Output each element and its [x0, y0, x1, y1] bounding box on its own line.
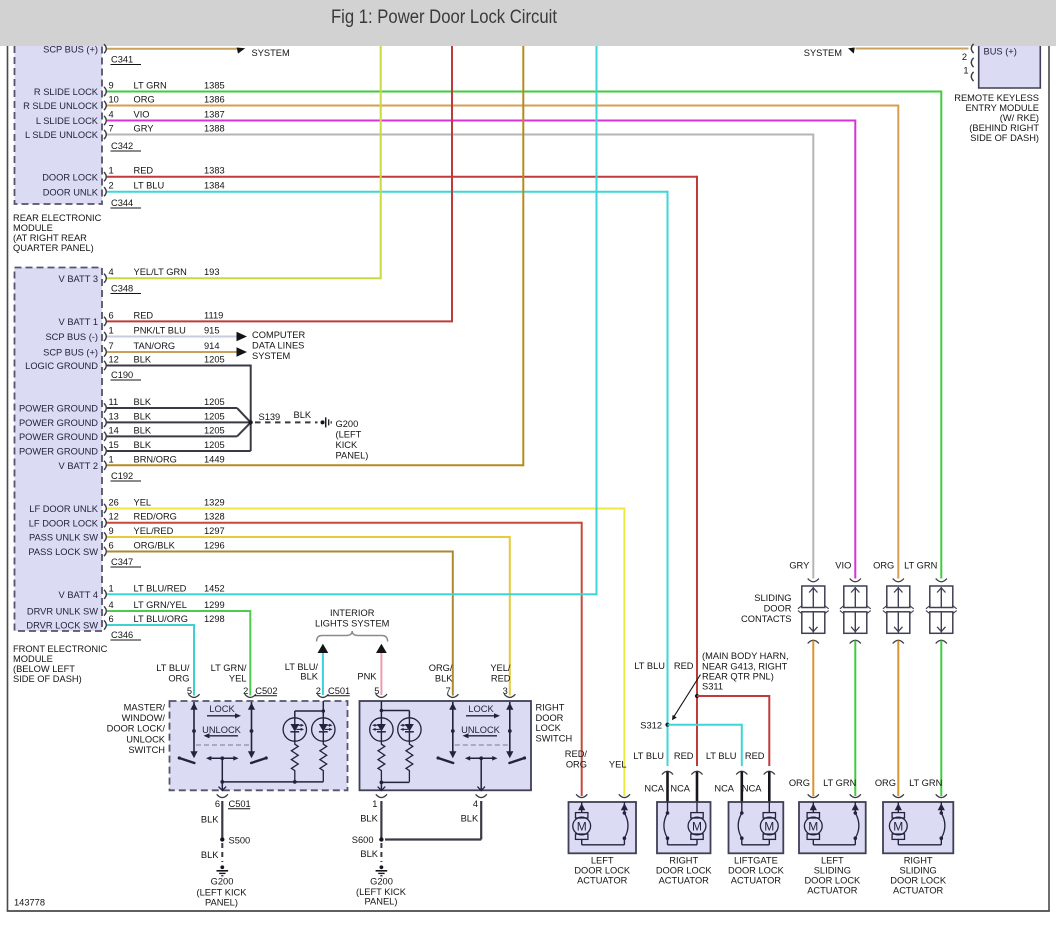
- svg-text:RIGHT: RIGHT: [669, 856, 698, 866]
- right switch lock/unlock arrows: [461, 704, 501, 739]
- sliding door contact at ORG: [883, 579, 914, 644]
- svg-text:SWITCH: SWITCH: [536, 733, 573, 743]
- svg-text:SYSTEM: SYSTEM: [804, 48, 842, 58]
- off-page arrow SYSTEM (right): [804, 48, 855, 58]
- svg-text:DRVR LOCK SW: DRVR LOCK SW: [26, 621, 98, 631]
- NCA wire at x=769.3: [764, 771, 775, 803]
- svg-text:UNLOCK: UNLOCK: [461, 725, 501, 735]
- svg-text:REAR ELECTRONIC: REAR ELECTRONIC: [13, 213, 102, 223]
- wire BLK dashed to ground (left): [201, 843, 222, 862]
- svg-text:Fig 1: Power Door Lock Circuit: Fig 1: Power Door Lock Circuit: [331, 7, 558, 28]
- svg-text:(BEHIND RIGHT: (BEHIND RIGHT: [969, 123, 1039, 133]
- svg-text:1119: 1119: [204, 310, 223, 320]
- svg-text:C348: C348: [111, 284, 133, 294]
- svg-text:5: 5: [187, 686, 192, 696]
- wire label YEL: [609, 760, 627, 770]
- svg-text:ENTRY MODULE: ENTRY MODULE: [965, 103, 1039, 113]
- svg-text:193: 193: [204, 267, 220, 277]
- svg-text:BLK: BLK: [201, 815, 219, 825]
- svg-text:C342: C342: [111, 141, 133, 151]
- svg-text:V BATT 3: V BATT 3: [59, 274, 98, 284]
- wire label PNK: [357, 672, 377, 682]
- svg-text:LT BLU/ORG: LT BLU/ORG: [134, 614, 188, 624]
- svg-text:ORG/: ORG/: [429, 663, 453, 673]
- svg-text:DOOR LOCK: DOOR LOCK: [890, 876, 947, 886]
- wire label YEL/ RED: [490, 663, 511, 684]
- wire label ORG/ BLK: [429, 663, 454, 684]
- svg-text:1: 1: [109, 326, 114, 336]
- svg-text:LF DOOR UNLK: LF DOOR UNLK: [29, 504, 99, 514]
- arrow to interior lights (LT BLU/BLK): [318, 644, 329, 653]
- svg-text:1328: 1328: [204, 512, 225, 522]
- svg-text:SLIDING: SLIDING: [900, 866, 937, 876]
- svg-text:(LEFT KICK: (LEFT KICK: [356, 887, 407, 897]
- svg-text:12: 12: [109, 355, 119, 365]
- svg-text:YEL: YEL: [134, 498, 152, 508]
- right door lock actuator label: [656, 856, 713, 886]
- sliding door contact at VIO: [840, 579, 871, 644]
- RKE pin connectors: [971, 44, 973, 81]
- svg-text:YEL/LT GRN: YEL/LT GRN: [134, 267, 187, 277]
- svg-text:4: 4: [109, 267, 114, 277]
- FEM pin connectors: [104, 274, 106, 630]
- liftgate door lock actuator: [729, 802, 784, 853]
- svg-text:WINDOW/: WINDOW/: [122, 713, 166, 723]
- svg-text:ORG/BLK: ORG/BLK: [134, 541, 176, 551]
- wire label LT GRN/ YEL: [211, 663, 247, 684]
- right switch bottom bus: [378, 781, 410, 791]
- svg-text:SYSTEM: SYSTEM: [252, 351, 290, 361]
- REM caption: [13, 213, 102, 253]
- svg-text:C341: C341: [111, 55, 133, 65]
- master switch LED 1: [283, 718, 306, 741]
- splice S311: [695, 694, 699, 698]
- svg-text:PNK: PNK: [357, 672, 377, 682]
- svg-text:6: 6: [109, 614, 114, 624]
- connector C348: [111, 284, 142, 294]
- svg-text:POWER GROUND: POWER GROUND: [19, 404, 98, 414]
- svg-text:LT BLU: LT BLU: [706, 751, 737, 761]
- svg-text:ORG: ORG: [875, 778, 896, 788]
- svg-text:DATA LINES: DATA LINES: [252, 341, 304, 351]
- svg-text:NCA: NCA: [714, 784, 734, 794]
- svg-text:UNLOCK: UNLOCK: [126, 734, 166, 744]
- master switch LED 2: [312, 718, 335, 741]
- ground G200 (S600): [356, 865, 407, 906]
- svg-text:L SLDE UNLOCK: L SLDE UNLOCK: [25, 130, 99, 140]
- wire ORG below contact: [812, 641, 814, 797]
- svg-text:LOCK: LOCK: [209, 704, 235, 714]
- wire LT GRN 1385: [107, 91, 941, 579]
- svg-text:RED: RED: [134, 310, 154, 320]
- svg-text:RIGHT: RIGHT: [904, 856, 933, 866]
- svg-text:ACTUATOR: ACTUATOR: [577, 876, 628, 886]
- connector C501 label (bottom): [228, 799, 251, 809]
- rear electronic module box: [15, 46, 103, 204]
- svg-text:(BELOW LEFT: (BELOW LEFT: [13, 664, 75, 674]
- svg-text:RED/ORG: RED/ORG: [134, 512, 177, 522]
- master switch mechanical link (dashed): [196, 744, 250, 746]
- svg-text:6: 6: [215, 799, 220, 809]
- svg-text:SCP BUS (+): SCP BUS (+): [43, 44, 98, 54]
- wire ORG/BLK 1296: [107, 551, 453, 696]
- right switch: lock switch: [437, 702, 457, 763]
- svg-text:10: 10: [109, 95, 119, 105]
- svg-text:R SLDE UNLOCK: R SLDE UNLOCK: [23, 101, 99, 111]
- svg-text:G200: G200: [336, 419, 359, 429]
- connector C192: [111, 471, 142, 481]
- sliding door contact at GRY: [798, 579, 829, 644]
- svg-text:(LEFT KICK: (LEFT KICK: [197, 888, 248, 898]
- master switch bottom pin 6 C501: [215, 794, 228, 809]
- svg-text:R SLIDE LOCK: R SLIDE LOCK: [34, 87, 99, 97]
- svg-text:LT BLU/: LT BLU/: [156, 663, 190, 673]
- svg-text:SLIDING: SLIDING: [814, 866, 851, 876]
- svg-text:TAN/ORG: TAN/ORG: [134, 341, 176, 351]
- svg-text:1: 1: [372, 799, 377, 809]
- connector C190: [111, 370, 142, 380]
- svg-text:INTERIOR: INTERIOR: [330, 608, 375, 618]
- svg-text:FRONT ELECTRONIC: FRONT ELECTRONIC: [13, 644, 108, 654]
- svg-text:REAR QTR PNL): REAR QTR PNL): [702, 672, 774, 682]
- svg-text:YEL: YEL: [229, 674, 247, 684]
- figure number 143778: [14, 898, 45, 908]
- svg-text:LOGIC GROUND: LOGIC GROUND: [25, 361, 98, 371]
- master switch LED feed: [295, 701, 325, 718]
- svg-text:SYSTEM: SYSTEM: [252, 48, 290, 58]
- svg-text:LIFTGATE: LIFTGATE: [734, 856, 778, 866]
- master switch bottom bus: [222, 780, 323, 784]
- wire LT GRN/YEL 1299: [107, 610, 250, 696]
- svg-text:ORG: ORG: [168, 674, 189, 684]
- svg-text:1: 1: [109, 583, 114, 593]
- data-lines arrow 1: [237, 332, 248, 341]
- svg-text:VIO: VIO: [134, 110, 150, 120]
- svg-text:C346: C346: [111, 630, 133, 640]
- svg-text:ORG: ORG: [566, 760, 587, 770]
- svg-text:NCA: NCA: [670, 784, 690, 794]
- svg-text:KICK: KICK: [336, 440, 358, 450]
- svg-text:MODULE: MODULE: [13, 223, 53, 233]
- wire BLK 1205 power ground 11: [107, 408, 251, 422]
- svg-text:MASTER/: MASTER/: [124, 703, 166, 713]
- svg-text:12: 12: [109, 512, 119, 522]
- wire label LT BLU (lower right): [706, 751, 737, 761]
- svg-text:1205: 1205: [204, 355, 225, 365]
- svg-text:CONTACTS: CONTACTS: [741, 614, 791, 624]
- svg-text:C502: C502: [255, 686, 277, 696]
- left door lock actuator: [569, 802, 637, 853]
- svg-text:SWITCH: SWITCH: [128, 745, 165, 755]
- svg-text:L SLIDE LOCK: L SLIDE LOCK: [36, 116, 99, 126]
- wire SCP BUS (+) to SYSTEM (tan): [107, 48, 237, 50]
- svg-text:LOCK: LOCK: [536, 723, 562, 733]
- svg-text:SLIDING: SLIDING: [754, 593, 791, 603]
- svg-text:BLK: BLK: [134, 411, 152, 421]
- svg-text:13: 13: [109, 411, 119, 421]
- svg-text:COMPUTER: COMPUTER: [252, 330, 305, 340]
- svg-text:C347: C347: [111, 557, 133, 567]
- svg-text:5: 5: [374, 686, 379, 696]
- svg-text:ORG: ORG: [873, 561, 894, 571]
- svg-text:7: 7: [446, 686, 451, 696]
- svg-text:LIGHTS SYSTEM: LIGHTS SYSTEM: [315, 618, 389, 628]
- svg-text:M: M: [692, 819, 702, 833]
- wire label RED (lower right): [745, 751, 765, 761]
- svg-text:M: M: [764, 819, 774, 833]
- svg-text:26: 26: [109, 498, 119, 508]
- svg-text:(W/ RKE): (W/ RKE): [1000, 113, 1039, 123]
- svg-text:1383: 1383: [204, 166, 225, 176]
- wire label LT BLU (lower left): [633, 751, 664, 761]
- svg-text:LOCK: LOCK: [468, 704, 494, 714]
- svg-text:POWER GROUND: POWER GROUND: [19, 432, 98, 442]
- data-lines arrow 2: [237, 347, 248, 356]
- svg-text:6: 6: [109, 310, 114, 320]
- svg-text:LT GRN: LT GRN: [134, 81, 167, 91]
- wire YEL/RED 1297: [107, 536, 510, 696]
- svg-text:G200: G200: [211, 877, 234, 887]
- wire BLK below master switch: [201, 801, 222, 838]
- svg-text:ACTUATOR: ACTUATOR: [893, 886, 944, 896]
- master switch contact bar: [206, 756, 239, 791]
- wire TAN/ORG 914: [107, 351, 237, 353]
- wire VIO label above contact: [835, 561, 851, 571]
- svg-text:LT BLU/: LT BLU/: [285, 662, 319, 672]
- wire RED from S311 to liftgate: [697, 695, 769, 766]
- svg-text:POWER GROUND: POWER GROUND: [19, 447, 98, 457]
- svg-text:1: 1: [109, 454, 114, 464]
- svg-text:S600: S600: [352, 835, 374, 845]
- wire ORG 1386: [107, 105, 898, 579]
- wire LT BLU from S312 to liftgate: [668, 724, 742, 766]
- wire label RED (lower left): [674, 751, 694, 761]
- svg-text:NCA: NCA: [644, 784, 664, 794]
- wire TAN to RKE BUS(+): [856, 48, 969, 50]
- svg-text:DOOR LOCK: DOOR LOCK: [574, 866, 631, 876]
- svg-text:BLK: BLK: [134, 425, 152, 435]
- svg-text:ACTUATOR: ACTUATOR: [807, 886, 858, 896]
- svg-text:RED: RED: [674, 751, 694, 761]
- svg-text:4: 4: [473, 799, 478, 809]
- svg-text:LT GRN/YEL: LT GRN/YEL: [134, 600, 187, 610]
- wire BLK 1205 power ground 15: [107, 450, 251, 452]
- svg-text:RIGHT: RIGHT: [536, 703, 565, 713]
- wire PNK: [380, 653, 382, 695]
- svg-text:DOOR LOCK: DOOR LOCK: [728, 866, 785, 876]
- svg-text:SIDE OF DASH): SIDE OF DASH): [970, 133, 1039, 143]
- svg-text:C344: C344: [111, 198, 133, 208]
- interior lights system label: [315, 608, 389, 628]
- svg-text:C501: C501: [328, 686, 350, 696]
- FEM caption: [13, 644, 108, 684]
- NCA wire at x=697: [691, 771, 702, 803]
- right switch LED 1: [370, 718, 393, 741]
- svg-text:S311: S311: [702, 682, 723, 692]
- svg-text:PANEL): PANEL): [336, 451, 369, 461]
- wire BLK 1205 power ground 13: [107, 421, 251, 423]
- svg-text:C190: C190: [111, 370, 133, 380]
- wire BLK to G200 (dashed): [255, 410, 318, 422]
- REM pin connectors: [104, 44, 106, 196]
- wire ORG label box5 left: [875, 778, 896, 788]
- right door lock actuator: [657, 802, 711, 853]
- wire label LT BLU/ ORG: [156, 663, 190, 684]
- wire LT GRN label box4 right: [823, 778, 856, 788]
- arrow to interior lights (PNK): [376, 644, 387, 653]
- svg-text:7: 7: [109, 124, 114, 134]
- ground G200 (S500): [197, 865, 248, 907]
- wire GRY 1388: [107, 134, 813, 579]
- wire label RED (upper): [674, 661, 694, 671]
- svg-text:PASS UNLK SW: PASS UNLK SW: [29, 533, 98, 543]
- svg-text:BLK: BLK: [294, 410, 312, 420]
- svg-text:14: 14: [109, 425, 119, 435]
- svg-text:SCP BUS (-): SCP BUS (-): [45, 332, 98, 342]
- svg-text:V BATT 4: V BATT 4: [59, 590, 98, 600]
- svg-text:MODULE: MODULE: [13, 654, 53, 664]
- svg-text:15: 15: [109, 440, 119, 450]
- wire ORG label box4 left: [789, 778, 810, 788]
- svg-text:NCA: NCA: [742, 784, 762, 794]
- master window door lock/unlock switch box: [170, 701, 348, 790]
- connector C342: [111, 141, 142, 151]
- svg-text:914: 914: [204, 341, 220, 351]
- right door lock switch box: [360, 701, 532, 790]
- svg-text:RED: RED: [491, 674, 511, 684]
- svg-text:DOOR LOCK: DOOR LOCK: [804, 876, 861, 886]
- wire YEL/LT GRN 193: [107, 46, 381, 279]
- wire BLK 1205 power ground 14: [107, 422, 251, 436]
- connector C346: [111, 630, 142, 640]
- connector C344: [111, 198, 142, 208]
- svg-text:3: 3: [503, 686, 508, 696]
- wire LT GRN label box5 right: [909, 778, 942, 788]
- svg-text:GRY: GRY: [789, 561, 809, 571]
- computer data lines label: [252, 330, 305, 361]
- svg-text:1: 1: [963, 66, 968, 76]
- svg-text:LT GRN/: LT GRN/: [211, 663, 247, 673]
- svg-text:1205: 1205: [204, 411, 225, 421]
- svg-text:BLK: BLK: [134, 397, 152, 407]
- NCA labels: [644, 784, 762, 794]
- svg-text:BUS (+): BUS (+): [984, 47, 1017, 57]
- liftgate door lock actuator label: [728, 856, 785, 886]
- wire LT GRN below contact: [940, 641, 942, 797]
- svg-text:V BATT 2: V BATT 2: [59, 461, 98, 471]
- off-page arrow SYSTEM (left): [237, 48, 290, 58]
- sliding door contacts label: [741, 593, 792, 624]
- wire LT BLU/BLK: [322, 653, 324, 695]
- wire label RED/ ORG: [565, 749, 588, 770]
- right switch: unlock switch: [506, 702, 526, 763]
- connector C501 label (top): [328, 686, 351, 696]
- master switch: lock switch: [178, 702, 198, 763]
- svg-text:YEL: YEL: [609, 760, 627, 770]
- splice S600: [352, 835, 384, 845]
- svg-text:LT GRN: LT GRN: [823, 778, 856, 788]
- svg-text:LT GRN: LT GRN: [904, 561, 937, 571]
- svg-text:VIO: VIO: [835, 561, 851, 571]
- S311 note text: [702, 651, 789, 692]
- svg-text:LT BLU: LT BLU: [134, 181, 165, 191]
- wire RED 1119: [107, 46, 452, 322]
- right switch LED feed: [380, 701, 410, 718]
- wire ORG below contact: [897, 641, 899, 797]
- svg-text:ORG: ORG: [789, 778, 810, 788]
- REM pin labels: [23, 44, 99, 197]
- svg-text:(AT RIGHT REAR: (AT RIGHT REAR: [13, 233, 87, 243]
- NCA wire at x=667.5: [662, 771, 673, 803]
- connector C341: [111, 55, 142, 65]
- svg-text:DOOR UNLK: DOOR UNLK: [43, 187, 99, 197]
- svg-text:BLK: BLK: [360, 814, 378, 824]
- wire GRY label above contact: [789, 561, 809, 571]
- left door lock actuator label: [574, 856, 631, 886]
- svg-text:7: 7: [109, 341, 114, 351]
- RKE caption: [954, 93, 1039, 143]
- svg-text:REMOTE KEYLESS: REMOTE KEYLESS: [954, 93, 1039, 103]
- master switch resistor 2: [320, 741, 327, 782]
- svg-text:YEL/RED: YEL/RED: [134, 526, 174, 536]
- wire RED/ORG 1328: [107, 522, 582, 796]
- svg-text:1452: 1452: [204, 583, 225, 593]
- svg-text:ACTUATOR: ACTUATOR: [659, 876, 710, 886]
- remote keyless entry module box: [978, 46, 1041, 88]
- svg-text:NEAR G413, RIGHT: NEAR G413, RIGHT: [702, 662, 788, 672]
- svg-text:G200: G200: [370, 877, 393, 887]
- wire LT BLU/RED 1452: [107, 46, 597, 595]
- svg-text:PASS LOCK SW: PASS LOCK SW: [28, 547, 98, 557]
- sliding door contact at LT GRN: [926, 579, 957, 644]
- svg-text:LEFT: LEFT: [821, 856, 844, 866]
- wire BRN/ORG 1449: [107, 46, 523, 466]
- NCA wire at x=741.8: [736, 771, 747, 803]
- svg-text:LT BLU: LT BLU: [634, 661, 665, 671]
- svg-text:BLK: BLK: [435, 674, 453, 684]
- splice S139: [249, 412, 281, 425]
- svg-text:LEFT: LEFT: [591, 856, 614, 866]
- wire LT BLU/ORG 1298: [107, 624, 194, 696]
- right sliding door lock actuator label: [890, 856, 947, 896]
- svg-text:143778: 143778: [14, 898, 45, 908]
- switch box top pins: [187, 686, 516, 697]
- wire RED 1383: [107, 176, 697, 766]
- svg-text:PANEL): PANEL): [365, 897, 398, 907]
- svg-text:LT BLU/RED: LT BLU/RED: [134, 583, 187, 593]
- svg-text:GRY: GRY: [134, 124, 154, 134]
- svg-text:1298: 1298: [204, 614, 225, 624]
- svg-text:BLK: BLK: [461, 814, 479, 824]
- leader arrow to S312: [672, 675, 701, 721]
- cups into right sliding actuator: [893, 794, 947, 797]
- svg-text:S139: S139: [259, 412, 281, 422]
- svg-text:YEL/: YEL/: [490, 663, 511, 673]
- svg-text:2: 2: [316, 686, 321, 696]
- svg-text:S500: S500: [229, 836, 251, 846]
- svg-text:2: 2: [962, 52, 967, 62]
- svg-text:ACTUATOR: ACTUATOR: [731, 876, 782, 886]
- wire PNK/LT BLU 915: [107, 336, 237, 338]
- left sliding door lock actuator label: [804, 856, 861, 896]
- title bar: [0, 0, 1056, 46]
- svg-text:1296: 1296: [204, 541, 225, 551]
- svg-text:PNK/LT BLU: PNK/LT BLU: [134, 326, 186, 336]
- RKE pin 1: [963, 66, 968, 76]
- svg-text:1449: 1449: [204, 454, 225, 464]
- svg-text:DOOR: DOOR: [764, 604, 792, 614]
- svg-text:M: M: [893, 819, 903, 833]
